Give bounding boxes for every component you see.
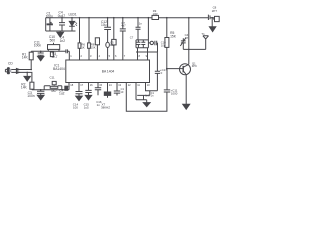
svg-text:1n0: 1n0 (145, 95, 150, 98)
svg-text:47: 47 (185, 36, 189, 40)
trimmer wiper box (52, 81, 56, 84)
resistor R8 (pin3 to rail) (88, 18, 90, 60)
junction R1-input (30, 69, 32, 71)
capacitor (pin15) (114, 83, 120, 96)
capacitor C12 chain (pin5) (104, 18, 111, 43)
tank circuit frame (136, 18, 148, 48)
connector CD input jack (7, 68, 9, 74)
label 10n pin6 (110, 40, 115, 47)
label loop text (145, 95, 150, 98)
LED LED1 (69, 18, 75, 31)
svg-text:4K7: 4K7 (52, 55, 58, 59)
capacitor electrolytic oval (pin5 lower) (106, 42, 110, 47)
svg-text:14K: 14K (21, 86, 28, 90)
wire pin16 loop (126, 83, 167, 112)
svg-text:1u5: 1u5 (84, 106, 89, 110)
wire base (167, 68, 183, 70)
svg-text:14K: 14K (22, 56, 29, 60)
crystal XT (pin14) (107, 83, 109, 93)
svg-text:1n2: 1n2 (60, 39, 66, 43)
label C7 (121, 21, 126, 28)
capacitor C15 (pin12) (85, 83, 91, 96)
wire emitter (183, 71, 186, 104)
inductor L1 (box on rail) (152, 15, 159, 19)
svg-text:500: 500 (50, 38, 56, 42)
label C9 (212, 6, 218, 13)
svg-text:1n: 1n (139, 21, 143, 25)
svg-text:100n: 100n (46, 14, 54, 18)
wire pin18 to right chain (146, 83, 158, 91)
label L1 rail (153, 9, 158, 16)
junction C3 (40, 89, 42, 91)
svg-text:11: 11 (137, 83, 140, 87)
svg-text:16: 16 (90, 83, 93, 87)
electrolytic small box (left of pin10) (65, 86, 68, 90)
svg-text:10n: 10n (110, 43, 115, 47)
svg-text:1n: 1n (97, 103, 101, 107)
svg-text:13: 13 (118, 83, 121, 87)
wire gnd stem input (26, 72, 28, 76)
transistor T1 (180, 64, 191, 75)
pin17 gnd cluster (136, 83, 147, 103)
resistor R1 (29, 52, 33, 60)
ground (input) (24, 76, 30, 81)
capacitor C2 (59, 18, 65, 31)
junction rail-gnd stem (211, 17, 213, 19)
IC U1 BA1404 (66, 60, 150, 83)
wire left block bottom (46, 30, 76, 32)
svg-text:0u47: 0u47 (58, 14, 66, 18)
svg-text:1u2: 1u2 (59, 92, 65, 96)
label XT (101, 102, 110, 109)
arrow emitter ground (183, 104, 190, 109)
svg-text:18: 18 (70, 83, 73, 87)
wire main supply rail (46, 17, 215, 19)
svg-text:14: 14 (109, 83, 112, 87)
label C11 (171, 89, 178, 96)
label C10 coil (161, 41, 166, 48)
capacitor series before pin1 (66, 49, 69, 60)
svg-text:1: 1 (70, 54, 72, 58)
svg-text:4K7: 4K7 (51, 89, 57, 93)
svg-text:17: 17 (80, 83, 83, 87)
wire left block left side (45, 18, 47, 31)
resistor R7 (pin4) (96, 45, 98, 60)
resistor 500 box over wire (48, 45, 60, 50)
label C17 (160, 68, 167, 75)
capacitor C17 (155, 71, 160, 73)
wire input bottom channel (11, 72, 32, 82)
svg-text:10R: 10R (153, 12, 158, 16)
svg-text:LED1: LED1 (69, 13, 77, 17)
svg-text:1n: 1n (151, 95, 154, 98)
label T1 ant (201, 32, 205, 36)
wire right vertical (C17 chain) (156, 52, 158, 91)
label C16b pin16 (120, 87, 124, 94)
svg-text:CD: CD (8, 61, 13, 65)
svg-text:10p: 10p (161, 43, 166, 47)
capacitor C9 (series, output) (208, 15, 210, 20)
svg-text:15K: 15K (91, 45, 96, 49)
resistor R3 below wire (50, 52, 53, 57)
svg-text:15K: 15K (170, 35, 177, 39)
wire input top channel (11, 69, 31, 71)
svg-text:C7: C7 (130, 36, 134, 40)
ground (C2a) (38, 56, 44, 60)
svg-text:1K: 1K (81, 45, 84, 49)
capacitor C4r trimmer (180, 38, 186, 50)
capacitor C16 (pin13) (95, 83, 101, 96)
svg-text:100n: 100n (34, 43, 42, 47)
ground (C15) (85, 95, 91, 99)
svg-text:C11: C11 (50, 75, 55, 79)
svg-text:2: 2 (81, 54, 83, 58)
capacitor C14 (pin11) (76, 83, 83, 97)
svg-text:12: 12 (128, 83, 131, 87)
pin numbers top (70, 54, 147, 58)
wire tank bottom (136, 48, 158, 60)
label C14 (73, 103, 79, 110)
wire collector tap to antenna (183, 48, 206, 50)
svg-text:15: 15 (99, 83, 102, 87)
capacitor C6 chain (tank feed) (136, 18, 141, 40)
antenna symbol (203, 36, 209, 50)
capacitor C11 (164, 69, 170, 92)
label C15 (84, 103, 90, 110)
svg-text:4p7: 4p7 (121, 24, 126, 28)
wire jack gnd stem (211, 18, 213, 27)
resistor R6 (pin2 to rail) (79, 18, 81, 60)
label C4 right (185, 33, 189, 40)
svg-text:5: 5 (109, 54, 111, 58)
capacitor C3 (37, 90, 44, 95)
potentiometer wire (44, 86, 62, 90)
svg-text:10: 10 (147, 83, 150, 87)
label Q1 (192, 61, 197, 68)
ground (left block) (59, 31, 61, 32)
pin numbers bottom (70, 83, 150, 87)
svg-text:38KHZ: 38KHZ (101, 106, 110, 110)
label R8 (91, 43, 96, 50)
arrow input top (16, 69, 19, 71)
coil L2 (150, 41, 153, 44)
junction input bottom gnd (26, 72, 28, 74)
capacitor tank A (136, 40, 140, 48)
capacitor C1 electrolytic (49, 18, 51, 31)
junction C2a (40, 51, 42, 53)
svg-text:4: 4 (99, 54, 101, 58)
svg-text:10u: 10u (101, 23, 107, 27)
label C6 diode (139, 21, 143, 25)
resistor R5 (166, 18, 168, 69)
capacitor tank B (141, 40, 145, 48)
label C16 (96, 100, 102, 107)
svg-text:100n: 100n (27, 94, 35, 98)
capacitor C13 box (pin6) (113, 18, 115, 60)
svg-text:2P7: 2P7 (212, 9, 218, 13)
wire under-IC left (32, 83, 69, 90)
svg-text:6: 6 (115, 54, 117, 58)
capacitor C7 (pin7) (120, 18, 126, 60)
resistor R4 horizontal (50, 86, 58, 88)
junction rail-C2 (61, 17, 63, 19)
svg-text:3: 3 (90, 54, 92, 58)
svg-text:7: 7 (124, 54, 126, 58)
wire preemphasis top (31, 50, 66, 52)
ground (C3) (37, 95, 44, 100)
capacitor C2a to gnd (38, 51, 44, 56)
ground (C14) (76, 96, 83, 100)
resistor R2 (30, 82, 34, 89)
junction rail-LED (71, 17, 73, 19)
ground (antenna jack) (209, 27, 215, 32)
svg-text:1000: 1000 (171, 92, 178, 96)
arrow input bottom (16, 71, 19, 73)
label under pin18 (151, 92, 155, 98)
wire collector vertical (183, 18, 188, 67)
label C7b (130, 36, 134, 40)
svg-text:3P9: 3P9 (192, 64, 197, 68)
svg-text:100: 100 (73, 106, 78, 110)
connector antenna jack (213, 16, 219, 21)
svg-text:BA1404: BA1404 (53, 67, 65, 71)
svg-text:BA 1404: BA 1404 (102, 69, 115, 73)
label C11b (50, 75, 55, 79)
svg-text:8: 8 (139, 54, 141, 58)
label R6 (81, 43, 85, 50)
svg-text:T1: T1 (201, 32, 205, 36)
